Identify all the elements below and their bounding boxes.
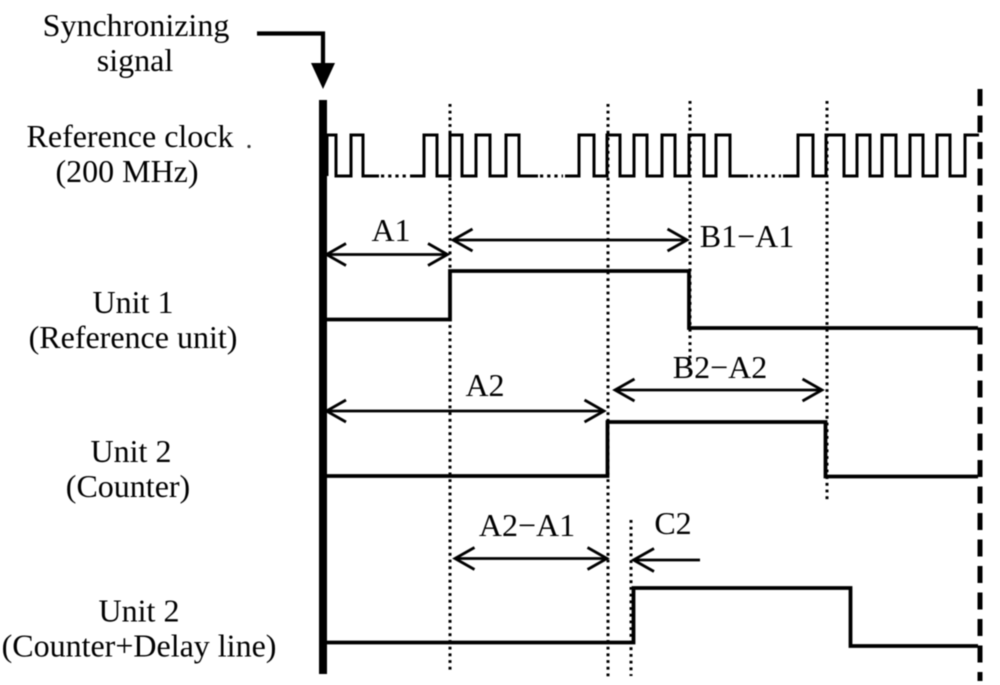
- svg-text:A2: A2: [465, 367, 504, 403]
- wire clock ellipsis dots 1: [381, 175, 409, 178]
- svg-text:Synchronizing: Synchronizing: [43, 7, 230, 43]
- svg-text:(Reference unit): (Reference unit): [29, 319, 238, 355]
- wire Unit 2 counter waveform: [327, 422, 978, 477]
- svg-text:B1−A1: B1−A1: [700, 218, 795, 254]
- arrow C2 single left: [634, 549, 701, 572]
- svg-text:(200 MHz): (200 MHz): [55, 153, 198, 189]
- arrow B1-A1 double: [453, 229, 687, 251]
- node dotted line x=450: [449, 104, 452, 672]
- wire reference clock waveform group2: [410, 135, 538, 176]
- label Synchronizing signal: [43, 7, 230, 78]
- svg-text:signal: signal: [97, 42, 174, 78]
- arrow A2 double: [327, 400, 605, 422]
- wire right boundary thick dashed line: [978, 89, 983, 681]
- svg-text:Reference clock: Reference clock: [27, 118, 234, 154]
- svg-text:Unit 2: Unit 2: [99, 593, 180, 629]
- node dotted line x=827: [826, 101, 829, 500]
- svg-text:Unit 2: Unit 2: [91, 433, 172, 469]
- svg-text:Unit 1: Unit 1: [93, 284, 174, 320]
- svg-text:(Counter+Delay line): (Counter+Delay line): [2, 628, 277, 664]
- wire reference clock waveform group3: [565, 135, 748, 176]
- wire clock ellipsis dots 3: [750, 175, 781, 178]
- label Unit 2 (Counter): [66, 433, 190, 504]
- label Unit 1 (Reference unit): [29, 284, 238, 355]
- wire Unit 2 counter+delay waveform: [327, 588, 978, 646]
- node dotted line x=690: [689, 101, 692, 376]
- arrow A1 double: [327, 244, 448, 266]
- wire reference clock waveform group1: [327, 135, 379, 176]
- wire clock ellipsis dots 2: [540, 175, 563, 178]
- svg-text:A2−A1: A2−A1: [479, 507, 575, 543]
- node speck after Reference clock: [247, 145, 250, 148]
- svg-text:B2−A2: B2−A2: [673, 349, 768, 385]
- arrowhead sync-down: [311, 63, 335, 89]
- svg-text:A1: A1: [371, 212, 410, 248]
- wire reference clock waveform group4: [783, 135, 979, 176]
- label Unit 2 (Counter+Delay line): [2, 593, 277, 664]
- arrow A2-A1 double: [455, 548, 607, 570]
- node dotted line x=631: [630, 520, 633, 676]
- wire sync-horizontal: [257, 34, 323, 65]
- wire Unit 1 waveform: [327, 271, 978, 328]
- label Reference clock (200 MHz): [27, 118, 234, 189]
- arrow B2-A2 double: [615, 379, 822, 401]
- wire sync vertical thick line: [319, 100, 327, 674]
- node dotted line x=608: [607, 104, 610, 677]
- svg-text:(Counter): (Counter): [66, 468, 190, 504]
- svg-text:C2: C2: [654, 505, 691, 541]
